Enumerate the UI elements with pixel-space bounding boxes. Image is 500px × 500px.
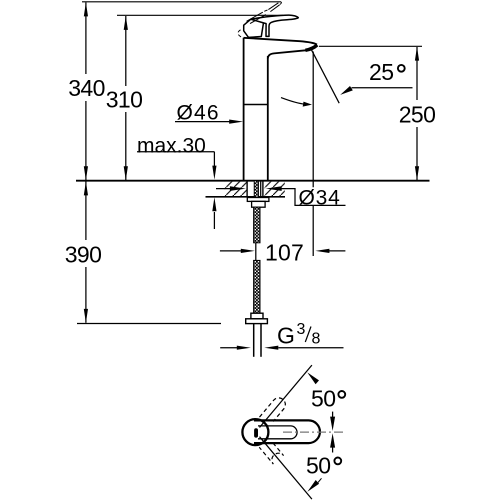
svg-text:G: G: [277, 323, 295, 349]
svg-text:8: 8: [312, 331, 321, 348]
locknut upper: [247, 198, 269, 202]
dimension 390 vertical line: [85, 182, 87, 323]
D46 leader with arrow to faucet body: [175, 121, 237, 123]
svg-text:390: 390: [65, 242, 102, 268]
deck hatch right block: [265, 182, 285, 197]
D34 right arrow and leader: [266, 186, 282, 191]
max.30 upper leader line and down arrow: [213, 152, 215, 167]
50deg vertical double arrow lower: [332, 445, 334, 453]
dimension 390 arrows: [84, 181, 88, 323]
raised lever thin lines: [247, 2, 282, 24]
hose end flange: [246, 319, 268, 324]
svg-text:50: 50: [306, 453, 330, 479]
svg-text:340: 340: [68, 75, 105, 101]
faucet top edge: [244, 38, 317, 45]
dimension 340 vertical line: [85, 2, 87, 180]
svg-text:250: 250: [399, 102, 436, 128]
G3/8 right arrow and leader: [264, 346, 278, 350]
bottom view: black pill mark: [254, 428, 258, 437]
25 deg leader arrowhead: [340, 86, 353, 95]
spout underside: [268, 50, 306, 58]
bottom view: lever inner outline: [258, 426, 297, 439]
25 deg arc arrow at vertical line: [281, 98, 305, 105]
locknut lower: [252, 201, 266, 207]
bottom view: lever body circle: [242, 419, 268, 445]
faucet body left edge: [243, 38, 245, 180]
lever pivot block: [244, 19, 264, 37]
shank inner wall line: [260, 182, 262, 198]
max.30 lower leader line and up arrow: [213, 212, 215, 229]
hose end reference line (390 bottom): [77, 323, 221, 325]
dimension 310 arrows: [124, 16, 128, 180]
25 deg leader line: [352, 87, 413, 89]
extension line (closed lever level, 310 ref): [117, 14, 283, 16]
spout tip vertical extension line: [312, 52, 314, 188]
raised lever dashed trace arc at pivot: [238, 30, 244, 39]
max.30 leader underline: [137, 151, 214, 153]
upper 50deg line: [260, 365, 312, 427]
deck bottom line: [206, 196, 286, 198]
spout beak (filled): [305, 45, 317, 50]
svg-text:3: 3: [297, 321, 306, 338]
connection tube: [253, 324, 255, 357]
dashed lever rotated up 50deg: [259, 395, 288, 425]
svg-text:107: 107: [265, 239, 304, 265]
extension line top (raised lever level, 340 ref): [82, 1, 281, 3]
svg-text:25: 25: [369, 59, 393, 85]
flexible hose upper segment (braided): [254, 207, 260, 243]
bottom view: lever outer outline: [254, 420, 320, 443]
faucet body right edge: [267, 56, 269, 180]
bottom view: center line: [283, 431, 344, 433]
threaded rod in shank: [254, 181, 258, 202]
countertop line: [76, 180, 430, 182]
hose end nut: [251, 313, 263, 319]
svg-text:Ø34: Ø34: [299, 186, 341, 209]
50deg vertical double arrow upper: [332, 412, 334, 419]
dimension 250 arrows: [415, 47, 419, 181]
dimension 107 right segment with arrow: [329, 250, 345, 252]
extension line from spout tip to 250 dimension: [319, 45, 422, 47]
upper 50deg arrowhead: [307, 372, 319, 384]
lower 50deg line: [260, 437, 312, 499]
dimension 310 vertical line: [125, 16, 127, 180]
dimension 340 arrows: [84, 2, 88, 180]
svg-text:50: 50: [311, 386, 335, 412]
lever blade (closed): [251, 15, 298, 36]
deck hatch left block: [225, 182, 247, 197]
D34 left arrow: [216, 188, 233, 190]
dimension 250 vertical line: [416, 47, 418, 180]
svg-text:max.30: max.30: [137, 134, 206, 157]
G3/8 left arrow: [220, 347, 237, 349]
shank outer walls: [246, 182, 248, 198]
flexible hose lower segment (braided): [254, 260, 260, 313]
body joint line (D46): [244, 104, 268, 106]
lower 50deg arrowhead: [307, 480, 319, 492]
25 deg slanted line from spout tip: [311, 49, 339, 104]
svg-text:Ø46: Ø46: [177, 101, 220, 124]
svg-text:310: 310: [106, 87, 143, 113]
dashed lever rotated down 50deg: [259, 439, 283, 464]
dimension 107 left segment with arrow: [220, 250, 241, 252]
